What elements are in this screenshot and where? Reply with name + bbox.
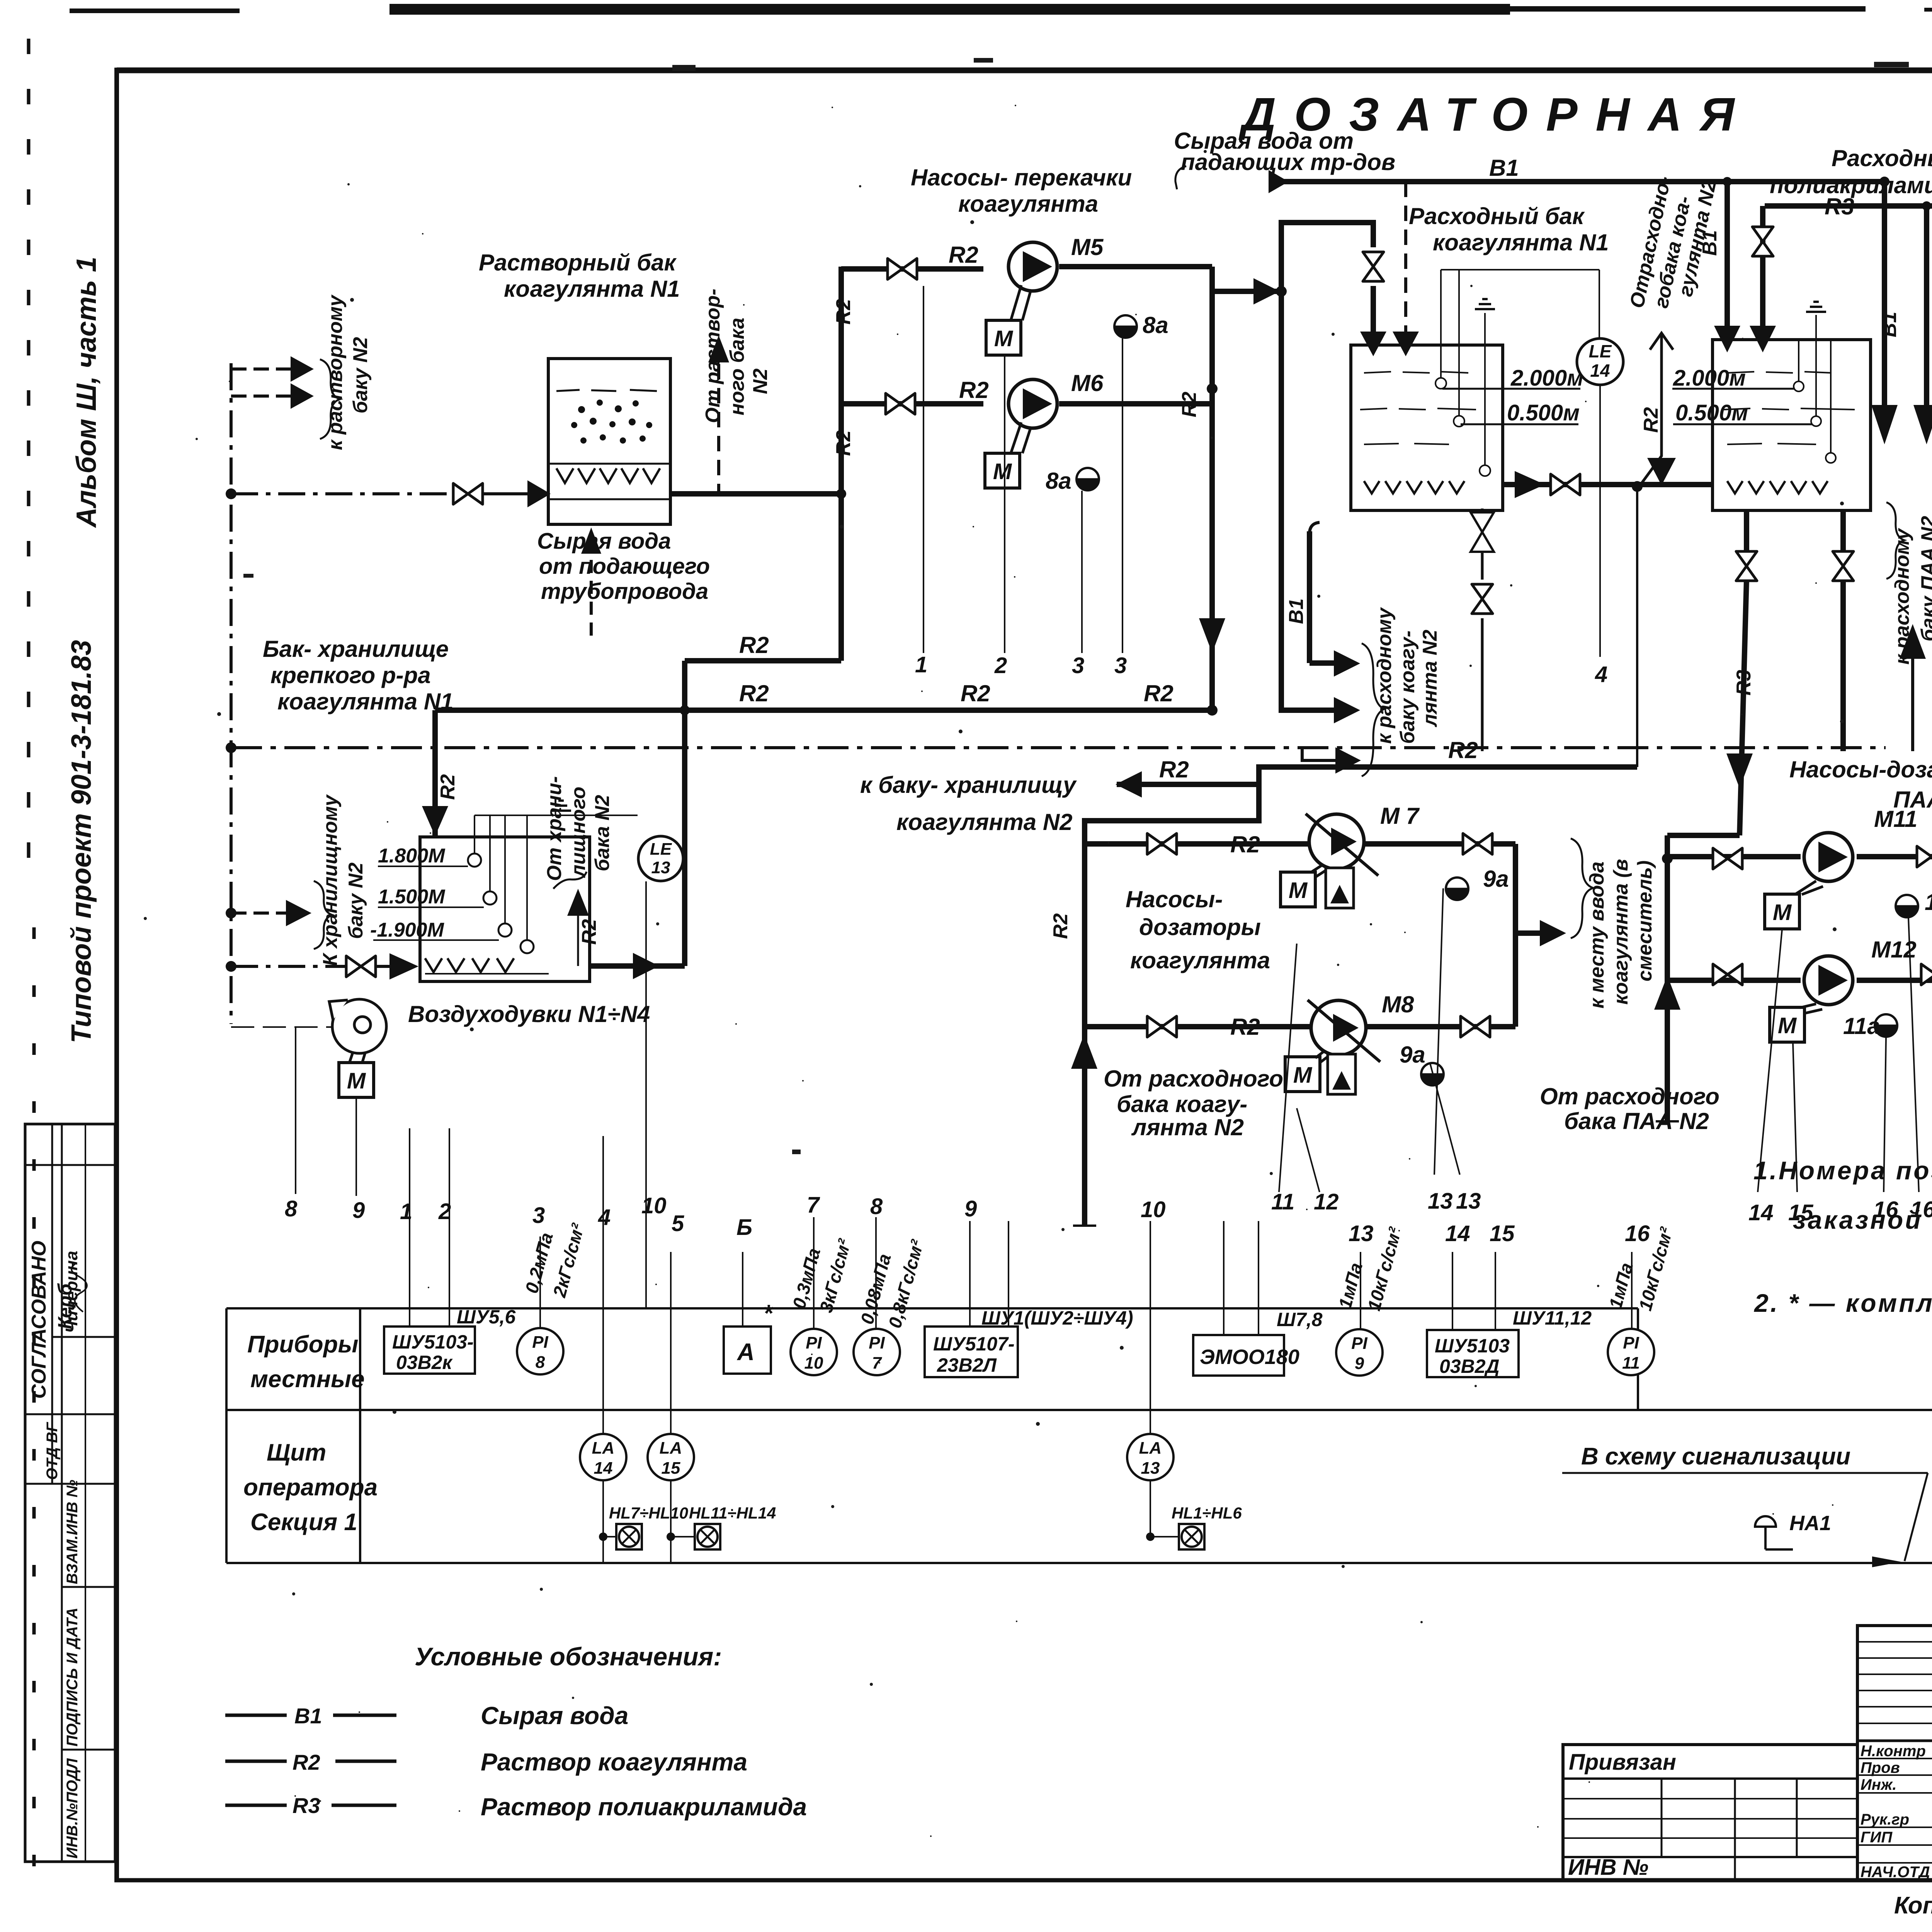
svg-text:В1: В1 [294,1704,322,1728]
svg-text:коагулянта N1: коагулянта N1 [504,276,680,302]
arrow to dot M5M6 [1253,278,1280,304]
svg-text:N2: N2 [749,368,772,394]
svg-text:М5: М5 [1071,234,1104,260]
svg-text:14: 14 [1748,1200,1774,1225]
svg-text:10: 10 [641,1193,667,1218]
svg-text:12: 12 [1314,1189,1339,1214]
svg-text:трубопровода: трубопровода [541,579,708,604]
arrow R3 into tank5 [1750,326,1776,352]
arrow B1 dashed into tank3 [1393,332,1419,356]
tank5 rashodny bak PAA N1 [1713,315,1871,510]
arrow ot hranil up [567,889,589,916]
wire tank3 outlet right [1503,482,1713,487]
wire tank3 junction down [1636,486,1638,767]
wire B1 drop to tank5 [1725,182,1730,332]
svg-text:R2: R2 [949,242,978,268]
wire ot rash koag N2 feed [1638,334,1662,488]
motor box M5 [986,320,1021,355]
svg-text:ШУ5,6: ШУ5,6 [457,1306,516,1328]
svg-text:баку N2: баку N2 [349,337,372,413]
svg-text:к баку- хранилищу: к баку- хранилищу [860,772,1077,798]
svg-text:баку ПАА N2: баку ПАА N2 [1917,516,1932,641]
svg-text:PI: PI [1351,1334,1367,1353]
svg-text:ИНВ №: ИНВ № [1568,1855,1648,1880]
svg-text:падающих тр-дов: падающих тр-дов [1181,149,1395,175]
svg-text:7: 7 [807,1192,820,1218]
LEFT MARGIN STAMP COLUMN [25,1124,115,1862]
valve M12 discharge [1921,964,1932,985]
svg-text:Приборы: Приборы [247,1331,358,1358]
svg-text:Рук.гр: Рук.гр [1861,1811,1909,1828]
svg-text:баку коагу-: баку коагу- [1396,631,1419,744]
ground tank2 [551,801,571,811]
wire ot rastvornogo baka dashed [717,340,720,494]
arrow R3 down to paa n2 [1913,405,1932,444]
svg-text:Насосы-: Насосы- [1126,886,1223,912]
wire syraya voda dashed arrow [590,531,593,636]
HA1 bell [1755,1516,1793,1549]
svg-text:PI: PI [1623,1333,1639,1352]
svg-text:R2: R2 [1049,913,1072,939]
svg-text:В1: В1 [1285,599,1308,624]
arrow upper to rash N2 [1334,650,1360,677]
svg-text:НА1: НА1 [1789,1512,1831,1535]
arrow R3 suction down [1726,753,1753,788]
svg-text:бака ПАА N2: бака ПАА N2 [1564,1108,1709,1134]
arrow k rastv baku 2 [291,383,314,409]
svg-text:М12: М12 [1871,937,1917,963]
svg-text:9: 9 [1355,1354,1364,1373]
wire tank1 outlet [670,491,841,497]
wire L2 long horizontal [435,707,1212,713]
svg-text:ШУ5103: ШУ5103 [1435,1335,1510,1357]
wire bridge L1 [685,658,841,663]
svg-text:9: 9 [964,1196,977,1221]
svg-text:От раствор-: От раствор- [702,289,724,423]
svg-text:Растворный бак: Растворный бак [479,250,677,276]
svg-text:крепкого р-ра: крепкого р-ра [270,662,431,688]
motor box M12 [1770,1007,1804,1042]
svg-text:10: 10 [1141,1197,1166,1222]
svg-text:ОТД ВГ: ОТД ВГ [44,1422,61,1480]
svg-text:лянта N2: лянта N2 [1419,629,1441,728]
svg-text:Ш7,8: Ш7,8 [1277,1309,1323,1330]
arrow to storage N2 left [1116,771,1142,798]
svg-text:13: 13 [651,858,670,877]
wire M8 discharge [1364,1024,1515,1029]
wire transfer down [1281,291,1334,710]
svg-text:16: 16 [1625,1221,1650,1246]
wire discharge manifold [1209,267,1215,710]
svg-text:СОГЛАСОВАНО: СОГЛАСОВАНО [28,1241,50,1399]
svg-text:местные: местные [250,1366,365,1393]
svg-text:3: 3 [1114,653,1127,678]
svg-text:10: 10 [804,1354,823,1372]
svg-text:*: * [763,1300,774,1327]
wire R3 drop to PAA N2 [1924,206,1929,410]
instrument boxes row1 [384,1327,1519,1377]
pump M6 [1009,379,1057,428]
svg-text:13: 13 [1428,1189,1453,1214]
valve R3 drop tank5 [1752,227,1773,256]
valve tank5 drain R3 [1736,551,1757,581]
svg-text:ПОДПИСЬ И ДАТА: ПОДПИСЬ И ДАТА [64,1607,81,1747]
wire M5 suction [841,266,983,272]
arrow ot rastv dashed top [708,335,729,362]
svg-text:коагулянта N2: коагулянта N2 [896,809,1073,835]
valve M8 discharge [1461,1016,1490,1037]
svg-text:R2: R2 [437,774,459,800]
pump M12 [1804,956,1853,1005]
wire stub arrows to rastv baku [231,367,291,371]
svg-text:HL7÷HL10: HL7÷HL10 [609,1504,688,1522]
svg-text:коагулянта N1: коагулянта N1 [277,689,454,714]
valve M5 suction [888,259,917,279]
svg-text:15: 15 [662,1459,680,1478]
wire to mixer place koag [1515,930,1540,936]
svg-text:Секция 1: Секция 1 [250,1509,357,1536]
svg-text:03В2Д: 03В2Д [1439,1355,1500,1377]
svg-text:Привязан: Привязан [1569,1750,1676,1775]
svg-text:8а: 8а [1143,312,1168,338]
wire M7M8 feed [1085,767,1637,844]
svg-text:13: 13 [1141,1459,1160,1478]
svg-text:11: 11 [1622,1354,1640,1372]
svg-text:В схему сигнализации: В схему сигнализации [1581,1443,1850,1470]
wire R3 horizontal [1765,203,1932,209]
svg-text:R2: R2 [1230,1014,1260,1040]
svg-text:8: 8 [870,1194,883,1219]
svg-text:R2: R2 [578,919,600,945]
svg-text:Н.контр: Н.контр [1861,1743,1926,1760]
wire B1 top horizontal [1269,179,1886,184]
dosing pump M8 [1308,1000,1380,1094]
instrument 9a upper [1446,878,1468,900]
thin / dashed lines [231,182,1932,1024]
svg-text:R2: R2 [739,680,769,706]
LE13 [638,836,683,881]
valve tank5 drain 2 [1833,551,1854,581]
motor box M11 [1765,894,1799,929]
svg-text:Б: Б [736,1215,752,1240]
wire M7 suction [1085,841,1310,847]
svg-text:LA: LA [592,1439,615,1458]
svg-text:Расходный бак: Расходный бак [1832,145,1932,171]
wire M11 discharge [1857,854,1932,859]
svg-text:Насосы- перекачки: Насосы- перекачки [911,165,1132,190]
tank1 rastvorny bak koag N1 [548,359,670,524]
svg-text:В1: В1 [1878,312,1901,337]
svg-text:R2: R2 [739,632,769,658]
svg-text:Расходный бак: Расходный бак [1409,203,1585,229]
svg-text:Керб: Керб [54,1283,76,1329]
svg-text:коагулянта (в: коагулянта (в [1610,859,1632,1005]
svg-text:бака N2: бака N2 [591,795,614,871]
svg-text:оператора: оператора [243,1474,378,1501]
wire tank1 inlet dashdot [231,492,456,495]
instrument 8a upper [1114,315,1137,338]
blower vozduhoduvka [329,999,386,1062]
svg-text:В1: В1 [1699,230,1721,256]
lamp HL1-HL6 [1179,1524,1204,1549]
instrument 9a lower [1421,1063,1444,1085]
svg-text:R3: R3 [1733,670,1755,696]
wire B1 hook to rash N2 [1307,531,1312,663]
svg-text:14: 14 [1445,1221,1470,1246]
svg-text:Воздуходувки N1÷N4: Воздуходувки N1÷N4 [408,1001,650,1027]
svg-text:ГИП: ГИП [1861,1829,1893,1846]
lamp HL7-HL10 [616,1524,642,1549]
svg-text:А: А [736,1339,755,1366]
svg-text:R3: R3 [293,1793,320,1818]
svg-text:Сырая вода: Сырая вода [481,1702,628,1730]
level labels tank2 [370,845,446,941]
svg-text:смеситель): смеситель) [1634,861,1656,981]
wire tank5 R3 down [1744,510,1749,553]
arrow M11M12 manifold up [1654,976,1680,1010]
wire M11 suction [1667,854,1801,859]
arrow k rash paa up [1900,624,1926,659]
svg-text:От расходного: От расходного [1104,1066,1283,1092]
arrow syraya voda up [581,527,601,554]
svg-text:8а: 8а [1046,468,1071,494]
svg-text:ИНВ.№ПОДЛ: ИНВ.№ПОДЛ [64,1758,81,1859]
svg-text:к расходному: к расходному [1891,527,1913,665]
svg-text:R2: R2 [1178,391,1201,417]
svg-text:ного бака: ного бака [726,318,748,415]
valve M7 suction [1147,833,1177,854]
svg-text:PI: PI [806,1333,822,1352]
svg-text:13: 13 [1349,1221,1374,1246]
svg-text:LA: LA [660,1439,682,1458]
notes right side [1753,1156,1932,1317]
svg-text:лищного: лищного [567,787,590,878]
wire M7M8 discharge manifold [1513,844,1518,1027]
arrow B1 into tank5 [1714,326,1740,352]
wire M7 discharge [1364,841,1515,847]
wire B1 dashed drop tank3 [1404,182,1407,335]
wire tank2 fill drop [432,710,438,835]
pump M11 [1804,833,1853,881]
svg-text:23В2Л: 23В2Л [937,1354,997,1376]
svg-text:3: 3 [1072,653,1084,678]
valve tank3 feed riser [1363,252,1384,281]
svg-text:бака коагу-: бака коагу- [1117,1091,1247,1117]
valve tank3 drain [1472,584,1493,614]
svg-text:R2: R2 [1230,832,1260,857]
svg-text:Раствор коагулянта: Раствор коагулянта [481,1748,747,1776]
wire R3 valve drop to tank5 [1760,206,1765,332]
svg-text:Раствор полиакриламида: Раствор полиакриламида [481,1793,807,1821]
svg-text:14: 14 [594,1459,613,1478]
arrow into tank2 air [389,953,418,980]
svg-text:LA: LA [1139,1439,1162,1458]
svg-text:лянта N2: лянта N2 [1131,1114,1244,1140]
arrow k rastv baku 1 [291,356,314,382]
svg-text:4: 4 [598,1205,611,1230]
svg-text:PI: PI [869,1333,885,1352]
wire hranilishnomu baku stub [231,912,286,915]
svg-text:2: 2 [994,653,1007,678]
instrument 11a upper [1896,895,1918,917]
svg-text:ШУ11,12: ШУ11,12 [1513,1307,1592,1329]
svg-text:ШУ5103-: ШУ5103- [392,1331,474,1353]
svg-text:коагулянта: коагулянта [958,191,1098,217]
ground tank5 [1806,302,1826,312]
svg-text:9а: 9а [1483,866,1509,892]
arrow L2 to rash N2 [1334,697,1360,723]
LE14 [1577,338,1623,657]
svg-text:Щит: Щит [267,1439,326,1466]
valve M6 suction [886,393,915,414]
wire branch to dot [1212,289,1279,294]
wire tank2 outlet [590,963,685,969]
wire bridge drop [682,661,687,966]
valve tank2 air [346,956,376,977]
rotated handwritten labels [319,174,1932,1009]
rotated pressure unit labels [521,1221,1677,1330]
svg-text:НАЧ.ОТД: НАЧ.ОТД [1861,1864,1930,1881]
signal flag [1581,1443,1850,1470]
svg-text:1: 1 [915,652,927,677]
svg-text:2. * — комплектно с установ: 2. * — комплектно с установкой ПАА. [1753,1289,1932,1317]
svg-text:0.500м: 0.500м [1675,400,1748,425]
valve M7 discharge [1463,833,1492,854]
wire dashdot horizontal long [231,746,1886,749]
motor box blower [339,1063,374,1097]
motor box M8 [1285,1057,1320,1092]
svg-text:R2: R2 [959,377,989,403]
svg-text:Инж.: Инж. [1861,1776,1897,1793]
tank2 bak-hranilishche [373,815,638,981]
svg-text:коагулянта N1: коагулянта N1 [1433,230,1609,255]
motor box M7 [1281,872,1315,907]
arrow into tank1 [527,480,551,507]
svg-text:8: 8 [285,1196,298,1221]
arrow k mestu koag [1540,920,1566,946]
svg-text:15: 15 [1490,1221,1515,1246]
signatures [71,1264,1932,1874]
dosing pump M7 [1306,814,1378,908]
arrow tank2 fill down [422,806,448,836]
svg-text:R2: R2 [1448,737,1478,763]
svg-text:М 7: М 7 [1380,803,1420,829]
lamps row2 [603,1480,1179,1563]
svg-text:R2: R2 [1640,407,1662,433]
svg-text:Типовой проект 901-3-181.83: Типовой проект 901-3-181.83 [66,640,97,1043]
svg-text:М8: М8 [1382,992,1414,1017]
arrow dashdot to rash N2 [1335,747,1361,774]
svg-text:R2: R2 [1159,757,1189,782]
svg-text:4: 4 [1595,662,1607,687]
wire B1 corner down right [1882,182,1887,410]
svg-text:1.Номера позиций приборов с: 1.Номера позиций приборов соответствуют [1753,1156,1932,1185]
flow arrows [286,170,1932,1069]
svg-text:ЭМОО180: ЭМОО180 [1200,1345,1299,1369]
svg-text:11а: 11а [1925,889,1932,915]
svg-text:R2: R2 [832,430,855,456]
wire M6 discharge [1059,401,1212,406]
svg-text:HL11÷HL14: HL11÷HL14 [689,1504,776,1522]
instrument 8a lower [1077,468,1099,490]
svg-text:2: 2 [438,1199,451,1224]
svg-text:R2: R2 [1144,680,1173,706]
wire tank5 drain2 [1840,510,1846,553]
svg-text:Насосы-дозаторы: Насосы-дозаторы [1789,757,1932,782]
wire to storage tank N2 [1117,782,1259,787]
svg-text:LE: LE [1589,341,1612,361]
svg-text:R2: R2 [293,1750,320,1774]
svg-text:HL1÷HL6: HL1÷HL6 [1172,1504,1242,1522]
svg-text:11: 11 [1271,1189,1294,1214]
braces [314,166,1932,949]
svg-text:-1.900М: -1.900М [370,919,444,941]
tank3 rashodny bak koag N1 [1351,270,1599,510]
arrow R2 into tank3 [1360,332,1386,356]
wire valve to tank3 arrow [1371,286,1376,335]
svg-text:PI: PI [532,1333,548,1352]
svg-text:9: 9 [352,1198,365,1223]
instrument 11a lower [1875,1014,1897,1037]
svg-text:коагулянта: коагулянта [1130,947,1270,973]
svg-text:1.500М: 1.500М [378,886,446,908]
wire M11M12 manifold [1665,835,1670,1121]
wire M5 discharge [1059,264,1212,269]
svg-text:13: 13 [1456,1189,1481,1214]
svg-text:8: 8 [536,1353,545,1372]
svg-text:5: 5 [672,1211,684,1236]
wire transfer riser to tank3 [1281,223,1373,291]
svg-text:Сырая вода: Сырая вода [537,529,671,554]
arrow k hranil baku [286,900,311,926]
svg-text:Бак- хранилище: Бак- хранилище [263,636,449,662]
wire M6 suction [841,401,983,406]
row2 circles [580,1434,1173,1480]
wire tank3 drain [1481,509,1484,580]
svg-text:2.000м: 2.000м [1673,366,1746,391]
svg-text:2.000м: 2.000м [1510,366,1583,391]
svg-text:R2: R2 [832,299,855,325]
svg-text:к растворному: к растворному [324,294,347,450]
svg-text:от подающего: от подающего [539,554,710,579]
wire dashdot stub to rash N2 [1302,748,1335,760]
wire M8 suction [1085,1024,1310,1029]
arrow tank2 outlet [633,953,659,979]
wire k rash paa stub [1911,657,1914,751]
svg-text:3: 3 [532,1203,545,1228]
svg-text:От храни-: От храни- [543,776,566,881]
svg-text:14: 14 [1590,361,1610,381]
wire dashdot vertical left [230,363,233,1024]
svg-text:ВЗАМ.ИНВ №: ВЗАМ.ИНВ № [64,1480,81,1584]
svg-text:LE: LE [650,840,672,859]
ground tank3 [1475,299,1495,309]
valve tank1 inlet [453,483,483,504]
svg-text:1.800М: 1.800М [378,845,446,867]
svg-text:7: 7 [872,1354,883,1372]
svg-text:М6: М6 [1071,370,1104,396]
svg-text:От расходного: От расходного [1540,1083,1719,1109]
instrument circles row1 [517,1328,1654,1376]
wire ot hranil baka stub [577,915,579,966]
svg-text:дозаторы: дозаторы [1139,914,1261,940]
svg-text:9а: 9а [1400,1042,1425,1068]
svg-text:Копировал: Корецкая: Копировал: Корецкая [1894,1892,1932,1919]
arrow manifold down mid [1199,618,1225,653]
wire suction manifold M5M6 [838,267,844,661]
wire M12 suction [1667,978,1801,983]
valve M11 suction [1713,848,1742,869]
